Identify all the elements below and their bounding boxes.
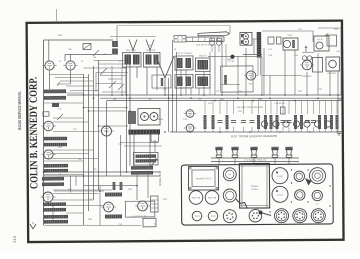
svg-text:RADIO SERVICE MANUAL: RADIO SERVICE MANUAL bbox=[17, 91, 22, 130]
svg-text:POWER: POWER bbox=[251, 186, 259, 188]
svg-text:MODEL 42-B: MODEL 42-B bbox=[158, 171, 162, 187]
svg-text:1ST I.F. TRANS: 1ST I.F. TRANS bbox=[176, 52, 192, 55]
svg-text:DET: DET bbox=[249, 83, 254, 85]
svg-text:MOD 42B: MOD 42B bbox=[208, 197, 217, 199]
svg-text:FUSE: FUSE bbox=[194, 216, 200, 218]
svg-text:FUSE: FUSE bbox=[210, 216, 216, 218]
svg-text:R.F.: R.F. bbox=[73, 129, 77, 131]
svg-text:2ND DET: 2ND DET bbox=[302, 76, 312, 78]
svg-text:SW: SW bbox=[68, 49, 71, 51]
svg-text:C14 R9 C21: C14 R9 C21 bbox=[274, 103, 286, 105]
svg-text:REGERSE CHASSIS MODEL 42-B: REGERSE CHASSIS MODEL 42-B bbox=[231, 134, 277, 138]
svg-text:OUT: OUT bbox=[163, 199, 168, 201]
svg-text:W: W bbox=[174, 49, 176, 51]
svg-text:TRANS: TRANS bbox=[251, 188, 258, 191]
svg-text:MOD 42B: MOD 42B bbox=[192, 197, 201, 199]
svg-text:A.F.: A.F. bbox=[68, 188, 72, 191]
svg-text:ANT COIL: ANT COIL bbox=[126, 49, 137, 52]
svg-text:42 OUT: 42 OUT bbox=[277, 195, 284, 197]
svg-text:R.F. COIL: R.F. COIL bbox=[146, 50, 156, 52]
svg-text:42 OUT: 42 OUT bbox=[277, 176, 284, 178]
svg-text:GANG: GANG bbox=[157, 118, 164, 121]
svg-text:VOL TUNING TONE SW: VOL TUNING TONE SW bbox=[244, 160, 266, 162]
svg-text:A.V.C.: A.V.C. bbox=[317, 38, 324, 41]
svg-text:SW: SW bbox=[336, 51, 339, 53]
svg-text:OSC: OSC bbox=[288, 35, 293, 37]
svg-text:FIELD: FIELD bbox=[227, 59, 233, 61]
svg-text:SPEAKER FIELD: SPEAKER FIELD bbox=[196, 177, 212, 180]
svg-text:213: 213 bbox=[12, 235, 17, 242]
svg-text:OSC: OSC bbox=[58, 147, 63, 149]
svg-text:2ND I.F.: 2ND I.F. bbox=[199, 55, 207, 57]
svg-text:COLIN B. KENNEDY CORP.: COLIN B. KENNEDY CORP. bbox=[28, 77, 41, 189]
svg-text:C12 R8: C12 R8 bbox=[228, 61, 236, 63]
svg-text:VOLUME TONE CONTROL: VOLUME TONE CONTROL bbox=[236, 107, 264, 109]
svg-text:3-7 .4 .00 .4 .000: 3-7 .4 .00 .4 .000 bbox=[131, 216, 147, 218]
svg-text:OUTPUT: OUTPUT bbox=[327, 73, 337, 75]
svg-text:ANT: ANT bbox=[58, 34, 63, 37]
